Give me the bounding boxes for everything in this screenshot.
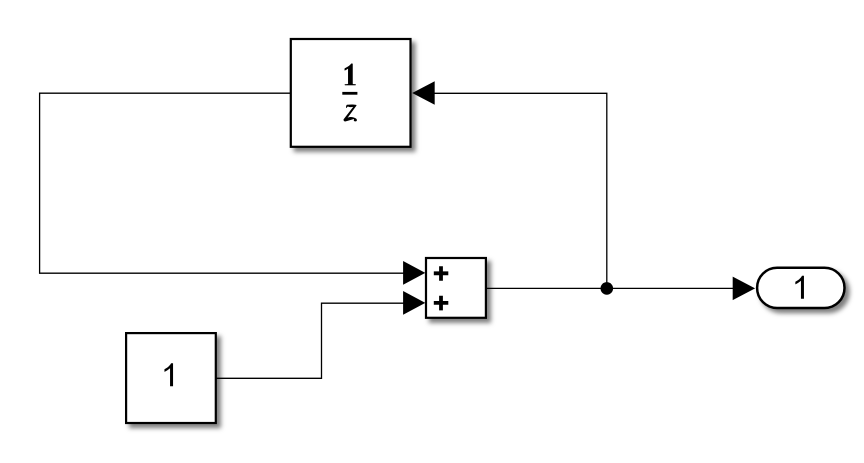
label: Outport number 1	[795, 276, 804, 299]
arrowhead into Unit Delay input	[412, 81, 435, 105]
wire: Constant output to Sum input 2	[217, 303, 405, 378]
label: plus sign input 2	[434, 296, 449, 311]
block Sum	[426, 258, 486, 318]
label: fraction bar	[342, 92, 357, 95]
arrowhead into Sum input 1	[403, 261, 425, 285]
wire: Sum output to Outport	[487, 287, 734, 289]
label: 1/z fraction numerator	[345, 64, 356, 85]
wire: feedback from Unit Delay output left and down to Sum input 1	[40, 93, 404, 273]
outport Out1	[757, 268, 844, 308]
junction node on Sum output wire	[601, 282, 614, 295]
label: plus sign input 1	[434, 266, 449, 281]
arrowhead into Sum input 2	[403, 291, 425, 315]
label: 1/z fraction denominator z	[344, 104, 357, 121]
label: Constant value 1	[164, 363, 173, 386]
block Unit Delay U1 (1/z)	[291, 39, 411, 147]
wire: branch from junction up to Unit Delay input	[434, 93, 607, 288]
arrowhead into Outport	[733, 277, 755, 301]
block Constant (value 1)	[126, 333, 216, 423]
